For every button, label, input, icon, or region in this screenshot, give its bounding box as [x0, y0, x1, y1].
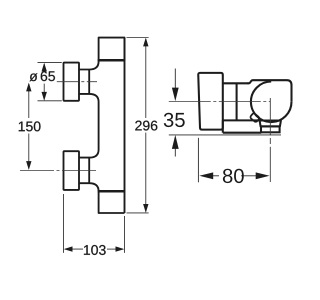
dimension 80: left extension line below knob face — [197, 138, 199, 183]
side view: mounting plate left edge — [222, 120, 224, 132]
dimension 80: right arrowhead — [256, 172, 270, 179]
dimension 103: extension lines below knob and body — [64, 194, 125, 253]
front view: body left edge fillet into upper valve boss — [79, 60, 99, 69]
front view: upper valve boss face edge — [88, 70, 90, 94]
side view: outlet axis extension line — [269, 147, 271, 182]
front view: lower connector bottom edge fillet into bottom block — [79, 183, 99, 191]
side view: mounting plate top edge — [223, 119, 260, 121]
dimension ø65: upper arrowhead — [42, 63, 47, 72]
dimension ø65: dimension line segments — [43, 64, 45, 100]
dimension 35: lower arrowhead pointing to extension line — [172, 135, 179, 149]
side view: horizontal centerline — [169, 101, 271, 103]
side view: outlet sphere arc — [251, 82, 292, 123]
dimension 150: dimension line segments — [28, 84, 30, 169]
front view: heavy shoulder line under top cap — [98, 59, 125, 62]
dimension 103: left arrowhead — [64, 246, 73, 251]
dimension 296: upper arrowhead — [143, 38, 148, 47]
front view: mixer body top cap — [99, 38, 125, 61]
dimension 35: label "35" — [164, 113, 185, 127]
dimension 80: dimension line segments — [211, 175, 258, 177]
side view: mounting plate bottom edge — [223, 132, 261, 134]
dimension 296: lower arrowhead — [143, 204, 148, 213]
front view: body right edge — [124, 38, 126, 213]
dimension 80: left arrowhead — [199, 172, 213, 179]
side view: outlet nozzle lower band — [261, 126, 280, 132]
side view: outlet head shell top and right edges — [248, 80, 292, 102]
front view: top knob centerline — [57, 81, 97, 83]
dimension 150: upper arrowhead — [26, 83, 31, 92]
front view: bottom handle knob — [64, 151, 80, 190]
front view: bottom block left and bottom edges — [99, 191, 125, 213]
dimension 35: upper dimension line tail — [174, 69, 176, 90]
dimension ø65: lower arrowhead — [42, 92, 47, 101]
dimension 296: extension lines at body top and bottom — [127, 38, 149, 213]
dimension ø65: extension lines at knob top and bottom — [38, 63, 62, 101]
dimension 103: label "103" — [84, 245, 106, 255]
side view: small clip tab at sphere lower-left — [250, 113, 260, 123]
dimension 80: label "80" — [223, 169, 244, 183]
dimension 35: upper arrowhead pointing to centerline — [172, 88, 179, 102]
dimension ø65: label "ø 65" — [30, 73, 38, 81]
front view: upper connector bottom edge, body mid left edge, lower connector top edge — [79, 94, 99, 158]
front view: heavy line over bottom block — [98, 190, 125, 193]
side view: outlet axis dash below nozzle — [269, 138, 271, 144]
dimension 35: lower dimension line tail — [174, 148, 176, 157]
dimension 103: right arrowhead — [116, 246, 125, 251]
side view: flange divider edge — [236, 83, 238, 120]
side view: handle knob — [198, 73, 223, 130]
dimension 296: dimension line segments — [145, 39, 147, 212]
front view: bottom knob centerline — [20, 170, 97, 172]
dimension 150: label "150" — [19, 121, 41, 131]
dimension 296: label "296" — [135, 121, 157, 131]
side view: body top edge — [223, 82, 249, 84]
side view: outlet axis line through nozzle — [269, 98, 271, 135]
front view: top handle knob — [64, 63, 80, 101]
dimension 150: lower arrowhead — [26, 161, 31, 170]
dimension 35: bottom extension line at nozzle underside — [169, 134, 281, 136]
dimension 103: dimension line segments — [65, 248, 123, 250]
side view: outlet nozzle upper band — [260, 121, 281, 127]
front view: lower valve boss face edge — [88, 158, 90, 184]
